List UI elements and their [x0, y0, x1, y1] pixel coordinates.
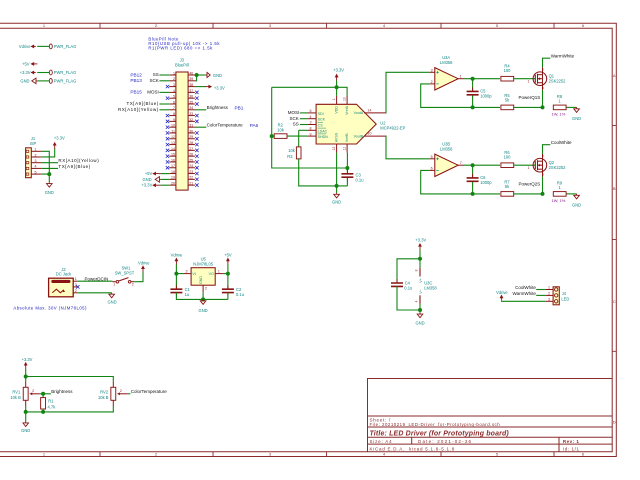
svg-text:1: 1 [558, 99, 561, 104]
svg-text:31: 31 [189, 124, 193, 128]
svg-text:Rev: 1: Rev: 1 [563, 439, 580, 444]
svg-text:LED: LED [561, 297, 569, 302]
svg-text:GND: GND [415, 320, 424, 325]
svg-text:6: 6 [173, 100, 175, 104]
svg-text:SCK: SCK [150, 78, 159, 83]
wire Q1 drain to WarmWhite [543, 58, 551, 67]
capacitor C1 [170, 289, 182, 292]
junction at U5 VI [174, 272, 178, 276]
svg-text:1: 1 [35, 148, 37, 152]
J3 pin 28 no-connect [195, 143, 198, 146]
J3 pin 1 stub [169, 74, 176, 76]
wire J3 pin4 MOSI [159, 91, 169, 93]
svg-text:10k B: 10k B [98, 395, 109, 400]
J3 pin 18 stub [169, 173, 176, 175]
wire SCK to U2 [300, 118, 308, 120]
svg-text:37: 37 [189, 89, 193, 93]
J4 pin 3 [545, 300, 553, 302]
J3 pin 31 stub [188, 126, 195, 128]
wire U3A feedback to -input [421, 84, 500, 108]
svg-text:2: 2 [205, 286, 207, 290]
J1 pin 2 [31, 156, 41, 158]
svg-text:0.1u: 0.1u [356, 178, 364, 183]
svg-text:+3.3V: +3.3V [20, 70, 31, 75]
power port +3.3V at J1 [54, 144, 56, 149]
svg-text:DC Jack: DC Jack [56, 272, 72, 277]
J3 pin 27 stub [188, 149, 195, 151]
junction at U3B output / C6 [471, 163, 475, 167]
svg-text:WarmWhite: WarmWhite [513, 291, 537, 296]
J3 pin 29 no-connect [195, 137, 198, 140]
svg-text:5: 5 [173, 95, 175, 99]
U3A pin 2 inverting [430, 83, 435, 85]
svg-text:+5V: +5V [224, 253, 232, 258]
J3 pin 32 no-connect [195, 120, 198, 123]
U2 pin 5 SDI [307, 112, 316, 114]
wire AVSS down [336, 153, 338, 193]
wire Q1 source down [542, 90, 544, 107]
wire J3 pin34 Brightness [195, 109, 206, 111]
svg-text:100: 100 [504, 68, 512, 73]
svg-text:Vdrive: Vdrive [171, 253, 183, 258]
J3 pin 24 no-connect [195, 166, 198, 169]
J3 pin 25 no-connect [195, 160, 198, 163]
svg-text:1: 1 [460, 74, 462, 78]
svg-text:3: 3 [542, 172, 544, 176]
capacitor C6 [472, 165, 474, 177]
wire +3.3V down to U3C [419, 250, 421, 268]
svg-text:PB15: PB15 [130, 90, 142, 95]
svg-text:RV1: RV1 [12, 390, 21, 395]
svg-text:LM358: LM358 [424, 286, 437, 291]
wire J1 pin2 to +3.3V [41, 149, 55, 157]
J3 pin 16 no-connect [166, 160, 169, 163]
svg-text:1: 1 [113, 282, 115, 286]
column numbers bottom [43, 452, 585, 457]
J1 pin 1 [31, 150, 41, 152]
wire +3.3V rail down left side [272, 87, 348, 168]
J3 pin 22 stub [188, 178, 195, 180]
power flag PF3 PWR_FLAG [49, 79, 52, 84]
svg-text:Absolute Max. 30V (NJM78L05): Absolute Max. 30V (NJM78L05) [13, 305, 87, 310]
svg-text:TX[A9](Blue): TX[A9](Blue) [126, 101, 158, 106]
U2 pin 8 LDAC [307, 129, 316, 131]
svg-text:4.7k: 4.7k [48, 404, 57, 409]
svg-text:1W, 1%: 1W, 1% [552, 198, 566, 203]
svg-text:AVSS: AVSS [335, 132, 339, 142]
svg-text:VI: VI [192, 272, 195, 276]
wire Vdrive to PWR_FLAG [37, 45, 49, 47]
svg-text:PB13: PB13 [130, 78, 142, 83]
svg-text:R1(PWR LED) 680 => 1.5k: R1(PWR LED) 680 => 1.5k [148, 46, 213, 51]
svg-text:+3.3V: +3.3V [141, 183, 152, 188]
svg-text:PowerDCIN: PowerDCIN [85, 276, 109, 281]
wire +3.3V down to RV1 [25, 369, 27, 382]
junction at U3A output / C5 [471, 77, 475, 81]
J3 pin 39 stub [188, 80, 195, 82]
svg-text:11: 11 [171, 129, 175, 133]
svg-text:2: 2 [542, 154, 544, 158]
row ticks right [612, 126, 616, 352]
svg-text:GND: GND [45, 190, 54, 195]
svg-text:GND: GND [199, 308, 208, 313]
svg-text:CoolWhite: CoolWhite [551, 140, 572, 145]
svg-text:C: C [613, 299, 616, 304]
svg-text:3: 3 [269, 23, 272, 28]
wire C4 bottom to rail [397, 286, 420, 310]
J3 pin 19 stub [169, 178, 176, 180]
wire to C4 top [397, 259, 420, 283]
svg-text:33: 33 [189, 112, 193, 116]
wire Q2 source down [542, 177, 544, 194]
svg-text:Vdrive: Vdrive [19, 44, 31, 49]
power port +3.3V at J3 pin20 [161, 184, 170, 186]
wire R3 to ground rail [299, 159, 348, 186]
svg-text:ColorTemperature: ColorTemperature [131, 389, 168, 394]
svg-text:3: 3 [269, 452, 272, 457]
U5 pin 1 VO [215, 273, 223, 275]
svg-text:2: 2 [542, 68, 544, 72]
svg-text:1: 1 [75, 277, 77, 281]
svg-text:ISP: ISP [30, 141, 37, 146]
svg-text:BluePill: BluePill [175, 63, 189, 68]
svg-text:32: 32 [189, 118, 193, 122]
wire J3 pin2 SCK [159, 80, 169, 82]
J3 pin 21 stub [188, 184, 195, 186]
svg-text:PWR_FLAG: PWR_FLAG [54, 44, 77, 49]
svg-text:1: 1 [332, 98, 336, 100]
junction at R1 bottom [41, 410, 45, 414]
svg-text:2: 2 [32, 389, 34, 393]
junction at U5 GND [201, 297, 205, 301]
svg-text:MOSI: MOSI [288, 110, 300, 115]
svg-text:SHDN: SHDN [318, 135, 329, 139]
wire R8 to GND [567, 106, 577, 108]
U2 pin 3 CS [307, 124, 316, 126]
svg-text:SCK: SCK [290, 116, 299, 121]
U3B pin 7 output [458, 164, 463, 166]
junction at J3 pin40 [195, 73, 199, 77]
svg-text:V+: V+ [419, 278, 423, 283]
svg-text:5: 5 [496, 23, 499, 28]
svg-text:TX[A9](Blue): TX[A9](Blue) [58, 164, 90, 169]
junction at U3C bottom [418, 308, 422, 312]
J3 pin 38 stub [188, 86, 195, 88]
junction bottom rail [24, 410, 28, 414]
svg-text:VDD: VDD [335, 106, 339, 114]
svg-text:29: 29 [189, 135, 193, 139]
U3C pin 4 V- [419, 295, 421, 304]
power port Vdrive at U5 [175, 259, 177, 264]
svg-text:LM358: LM358 [440, 146, 453, 151]
wire MOSI to U2 SDI [300, 112, 308, 114]
resistor R5 [501, 105, 514, 110]
svg-text:5: 5 [496, 452, 499, 457]
svg-text:VO: VO [209, 272, 214, 276]
wire J3 pin1 SS [159, 74, 169, 76]
wire LDAC to R3 [299, 129, 308, 131]
U2 pin 4 SCK [307, 118, 316, 120]
capacitor C4 [391, 283, 403, 286]
junction at U5 VO [226, 272, 230, 276]
J1 pin 4 [31, 167, 41, 169]
svg-text:17: 17 [171, 164, 175, 168]
connector J1 body [26, 148, 32, 178]
regulator U5 body [191, 268, 215, 286]
svg-text:25: 25 [189, 158, 193, 162]
wire R2 to SHDN [287, 135, 307, 137]
svg-text:+3.3V: +3.3V [415, 237, 426, 242]
svg-text:Title: LED Driver (for Prototy: Title: LED Driver (for Prototyping board… [370, 430, 510, 437]
svg-text:R3: R3 [287, 154, 293, 159]
J3 pin 5 stub [169, 97, 176, 99]
svg-text:+3.3V: +3.3V [54, 136, 65, 141]
svg-text:10k B: 10k B [10, 395, 21, 400]
wire J4 pin3 to Vdrive [502, 300, 546, 301]
svg-text:3: 3 [431, 68, 433, 72]
wire R4 to Q1 gate [514, 78, 535, 80]
svg-text:27: 27 [189, 147, 193, 151]
connector J3 body [176, 72, 188, 190]
svg-text:RX[A10](Yellow): RX[A10](Yellow) [58, 158, 99, 163]
svg-text:3: 3 [548, 297, 550, 301]
svg-text:GND: GND [199, 276, 203, 284]
svg-text:12: 12 [332, 147, 336, 151]
svg-text:1W, 1%: 1W, 1% [552, 111, 566, 116]
svg-text:PB1: PB1 [235, 106, 244, 111]
J3 pin 15 no-connect [166, 154, 169, 157]
svg-text:VrefA: VrefA [345, 105, 349, 114]
svg-text:ColorTemperature: ColorTemperature [207, 123, 244, 128]
J3 pin 25 stub [188, 161, 195, 163]
svg-text:11: 11 [342, 147, 346, 151]
svg-text:4: 4 [383, 23, 386, 28]
svg-text:LDAC: LDAC [318, 129, 328, 133]
power port +3.3V at U3C [419, 245, 421, 250]
svg-text:PowerQ1S: PowerQ1S [519, 95, 541, 100]
svg-text:23: 23 [189, 170, 193, 174]
wire VrefB down [346, 153, 348, 173]
resistor R8 [553, 105, 566, 110]
J3 pin 11 stub [169, 132, 176, 134]
J3 pin 8 stub [169, 115, 176, 117]
svg-text:SW_SPST: SW_SPST [115, 271, 135, 276]
svg-text:Id: 1/1: Id: 1/1 [563, 447, 580, 452]
svg-text:4: 4 [173, 89, 175, 93]
junction at R1 top [41, 392, 45, 396]
svg-text:2: 2 [120, 389, 122, 393]
ground below U3C [417, 313, 423, 318]
wire J3 pin38 to +3.3V [195, 86, 206, 88]
J3 pin 33 no-connect [195, 114, 198, 117]
J3 pin 40 stub [188, 74, 195, 76]
potentiometer RV1 [25, 382, 27, 388]
svg-text:0.1u: 0.1u [236, 292, 244, 297]
wire U3B output to R6 [464, 164, 501, 166]
U2 pin 10 VoutB [364, 135, 386, 137]
wire top rail to RV2 [26, 377, 114, 382]
junction at AVSS ground [335, 184, 339, 188]
J3 pin 10 no-connect [166, 125, 169, 128]
svg-text:+5V: +5V [145, 171, 153, 176]
svg-text:14: 14 [171, 147, 175, 151]
svg-text:D: D [613, 419, 616, 424]
svg-text:3: 3 [186, 269, 188, 273]
J3 pin 12 no-connect [166, 137, 169, 140]
wire U3C V- to ground [419, 304, 421, 313]
wire C3 to ground rail [346, 178, 348, 186]
wire J3 pin31 ColorTemperature [195, 126, 206, 128]
J1 pin 5 [31, 173, 41, 175]
svg-text:0.1u: 0.1u [404, 286, 412, 291]
wire +3.3V to PWR_FLAG [37, 72, 49, 74]
svg-text:PWR_FLAG: PWR_FLAG [54, 78, 77, 83]
svg-text:15: 15 [171, 153, 175, 157]
resistor R7 [501, 192, 514, 197]
J3 pin 20 stub [169, 184, 176, 186]
svg-text:9: 9 [310, 132, 312, 136]
wire C6 to feedback rail [472, 182, 474, 194]
svg-text:38: 38 [189, 83, 193, 87]
J3 pin 9 stub [169, 120, 176, 122]
svg-text:GND: GND [213, 73, 222, 78]
svg-text:Brightness: Brightness [207, 105, 229, 110]
wire R9 to GND [567, 193, 577, 195]
resistor R6 [501, 163, 514, 168]
wire J1 pin4 [41, 167, 58, 169]
svg-text:1: 1 [173, 71, 175, 75]
svg-text:36: 36 [189, 95, 193, 99]
power port +5V at J3 pin18 [161, 173, 170, 175]
wire bottom rail [25, 406, 27, 422]
wire C1 to ground rail [176, 293, 228, 300]
U3C pin 8 V+ [419, 268, 421, 277]
power port GND at J3 pin19 [161, 178, 170, 180]
svg-text:J4: J4 [562, 291, 567, 296]
svg-text:18: 18 [171, 170, 175, 174]
J3 pin 12 stub [169, 138, 176, 140]
J3 pin 14 no-connect [166, 149, 169, 152]
junction at VrefB / C3 [345, 166, 349, 170]
svg-text:B: B [613, 186, 616, 191]
svg-text:+3.3V: +3.3V [333, 68, 344, 73]
wire U3A output to R4 [464, 78, 501, 80]
J2 barrel bar [51, 280, 70, 283]
J1 pin 3 [31, 162, 41, 164]
row letters right [613, 73, 616, 424]
svg-text:VoutB: VoutB [354, 134, 364, 138]
op-amp U3B body [435, 154, 458, 176]
svg-text:3: 3 [542, 86, 544, 90]
wire GND to PWR_FLAG [37, 80, 49, 82]
wire VoutA to U3A +input [386, 72, 430, 113]
svg-text:NJM78L05: NJM78L05 [193, 262, 214, 267]
resistor R4 [501, 76, 514, 81]
svg-text:2SK2252: 2SK2252 [549, 165, 567, 170]
power port +3.3V above U2 [336, 75, 338, 80]
wire RV1 wiper Brightness [40, 393, 51, 395]
svg-text:Brightness: Brightness [51, 389, 73, 394]
svg-text:3: 3 [310, 121, 312, 125]
U3B pin 5 noninverting [430, 158, 435, 160]
J3 pin 10 stub [169, 126, 176, 128]
J3 pin 14 stub [169, 149, 176, 151]
power port GND at J3 pin40 [206, 72, 210, 77]
U5 pin 2 GND [202, 285, 204, 293]
svg-text:2: 2 [155, 452, 158, 457]
power flag PF2 PWR_FLAG [49, 70, 52, 75]
svg-text:6: 6 [431, 166, 433, 170]
svg-text:PB12: PB12 [130, 72, 142, 77]
svg-text:File: 20210219_LED-Driver_for-: File: 20210219_LED-Driver_for-Prototypin… [370, 422, 501, 427]
svg-text:1000p: 1000p [480, 180, 492, 185]
J3 pin 36 stub [188, 97, 195, 99]
J2 pin 3 no-connect [73, 286, 78, 288]
svg-text:3: 3 [75, 283, 77, 287]
svg-text:+3.3V: +3.3V [214, 85, 225, 90]
svg-text:SCK: SCK [318, 118, 326, 122]
transistor Q1 2SK2252 [533, 72, 547, 86]
junction at U2 VDD [335, 85, 339, 89]
wire R1 to bottom rail [42, 409, 44, 412]
svg-text:VoutA: VoutA [354, 111, 364, 115]
J3 pin 2 stub [169, 80, 176, 82]
svg-text:SS: SS [293, 122, 299, 127]
power flag PF1 PWR_FLAG [49, 44, 52, 49]
J3 pin 33 stub [188, 115, 195, 117]
J3 pin 4 stub [169, 91, 176, 93]
wire SW1 to Vdrive [134, 272, 143, 282]
J3 pin 16 stub [169, 161, 176, 163]
svg-text:3: 3 [173, 83, 175, 87]
power port +3.3V at J3 pin38 [205, 86, 210, 88]
J3 pin 37 no-connect [195, 91, 198, 94]
junction at C5 bottom [471, 105, 475, 109]
junction at C6 bottom [471, 192, 475, 196]
junction at J1 pin5 [47, 172, 51, 176]
svg-text:35: 35 [189, 100, 193, 104]
J3 pin 15 stub [169, 155, 176, 157]
J4 pin 1 [545, 289, 553, 291]
svg-text:SS: SS [153, 72, 159, 77]
svg-text:1u: 1u [185, 292, 190, 297]
resistor R9 [553, 192, 566, 197]
svg-text:4: 4 [383, 452, 386, 457]
svg-text:2: 2 [75, 289, 77, 293]
svg-text:1: 1 [43, 23, 46, 28]
column ticks top [100, 23, 554, 28]
ground at R8 [574, 107, 580, 112]
svg-text:5: 5 [431, 155, 433, 159]
resistor R2 [274, 134, 287, 139]
svg-text:Size: A4: Size: A4 [370, 439, 393, 444]
ground below U2 [334, 193, 340, 198]
J3 pin 30 no-connect [195, 131, 198, 134]
J3 pin 22 no-connect [195, 178, 198, 181]
svg-text:5: 5 [35, 170, 37, 174]
ground at J1 [47, 182, 53, 187]
wire U3B feedback to -input [421, 170, 500, 194]
svg-text:16: 16 [171, 158, 175, 162]
svg-text:GND: GND [572, 202, 581, 207]
svg-text:CS: CS [318, 124, 324, 128]
svg-text:8: 8 [415, 269, 419, 271]
svg-text:R1: R1 [48, 399, 54, 404]
junction at U3C top [418, 257, 422, 261]
J3 pin 13 stub [169, 144, 176, 146]
wire J3 pin40 to GND [195, 74, 206, 76]
U5 pin 3 VI [184, 273, 192, 275]
